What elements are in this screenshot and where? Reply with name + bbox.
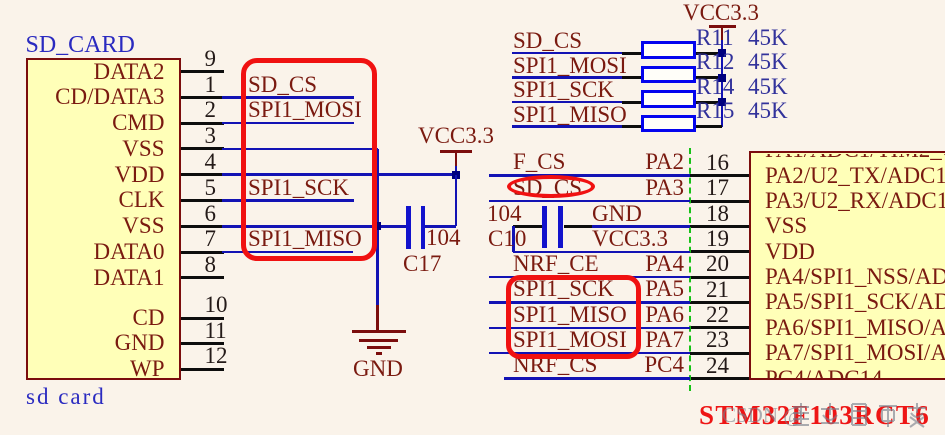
- svg-text:CSDN @: CSDN @: [722, 403, 803, 427]
